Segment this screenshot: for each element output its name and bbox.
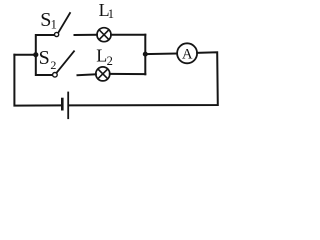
svg-text:L: L xyxy=(96,46,107,66)
svg-text:A: A xyxy=(182,46,193,62)
svg-text:S: S xyxy=(39,47,50,69)
svg-text:1: 1 xyxy=(108,7,114,21)
svg-text:1: 1 xyxy=(51,17,57,31)
svg-text:2: 2 xyxy=(107,54,113,68)
svg-text:2: 2 xyxy=(50,58,56,72)
